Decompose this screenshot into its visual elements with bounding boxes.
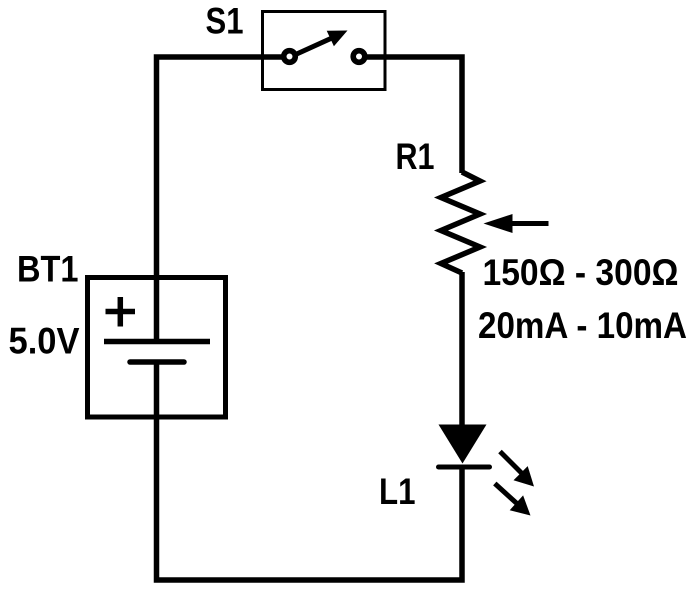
switch S1 box xyxy=(263,12,386,90)
wire: switch right terminal across and down to resistor top xyxy=(367,57,462,173)
svg-text:150Ω - 300Ω: 150Ω - 300Ω xyxy=(483,252,679,293)
switch S1 actuator arrowhead xyxy=(327,31,348,47)
LED L1 cathode bar xyxy=(439,465,490,470)
svg-text:BT1: BT1 xyxy=(17,249,79,290)
battery plus sign vertical stroke xyxy=(118,297,124,327)
wire: battery positive up and across to switch left terminal xyxy=(157,57,283,341)
svg-text:S1: S1 xyxy=(206,1,244,42)
LED L1 triangle (anode) xyxy=(439,425,487,464)
LED light arrow 2 shaft xyxy=(495,484,518,505)
adjustment arrowhead pointing at R1 xyxy=(484,214,513,233)
svg-text:20mA - 10mA: 20mA - 10mA xyxy=(478,305,687,346)
adjustment arrow shaft pointing at R1 xyxy=(511,221,549,226)
battery plus sign horizontal stroke xyxy=(106,309,136,315)
switch S1 left terminal circle xyxy=(284,51,296,63)
switch S1 actuator arm xyxy=(295,38,334,56)
LED light arrow 1 head xyxy=(514,466,535,486)
svg-text:R1: R1 xyxy=(396,136,435,177)
switch S1 right terminal circle xyxy=(353,51,365,63)
LED light arrow 1 shaft xyxy=(500,452,522,474)
resistor R1 zigzag body xyxy=(441,172,480,273)
wire: LED cathode down, along bottom, up to battery negative xyxy=(157,362,463,580)
svg-text:5.0V: 5.0V xyxy=(9,321,80,362)
battery BT1 box xyxy=(88,278,226,418)
battery positive plate (long line) xyxy=(104,339,210,345)
LED light arrow 2 head xyxy=(510,495,531,515)
wire: resistor bottom down to LED anode xyxy=(459,272,465,426)
svg-text:L1: L1 xyxy=(379,471,416,512)
battery negative plate (short line) xyxy=(130,359,184,365)
